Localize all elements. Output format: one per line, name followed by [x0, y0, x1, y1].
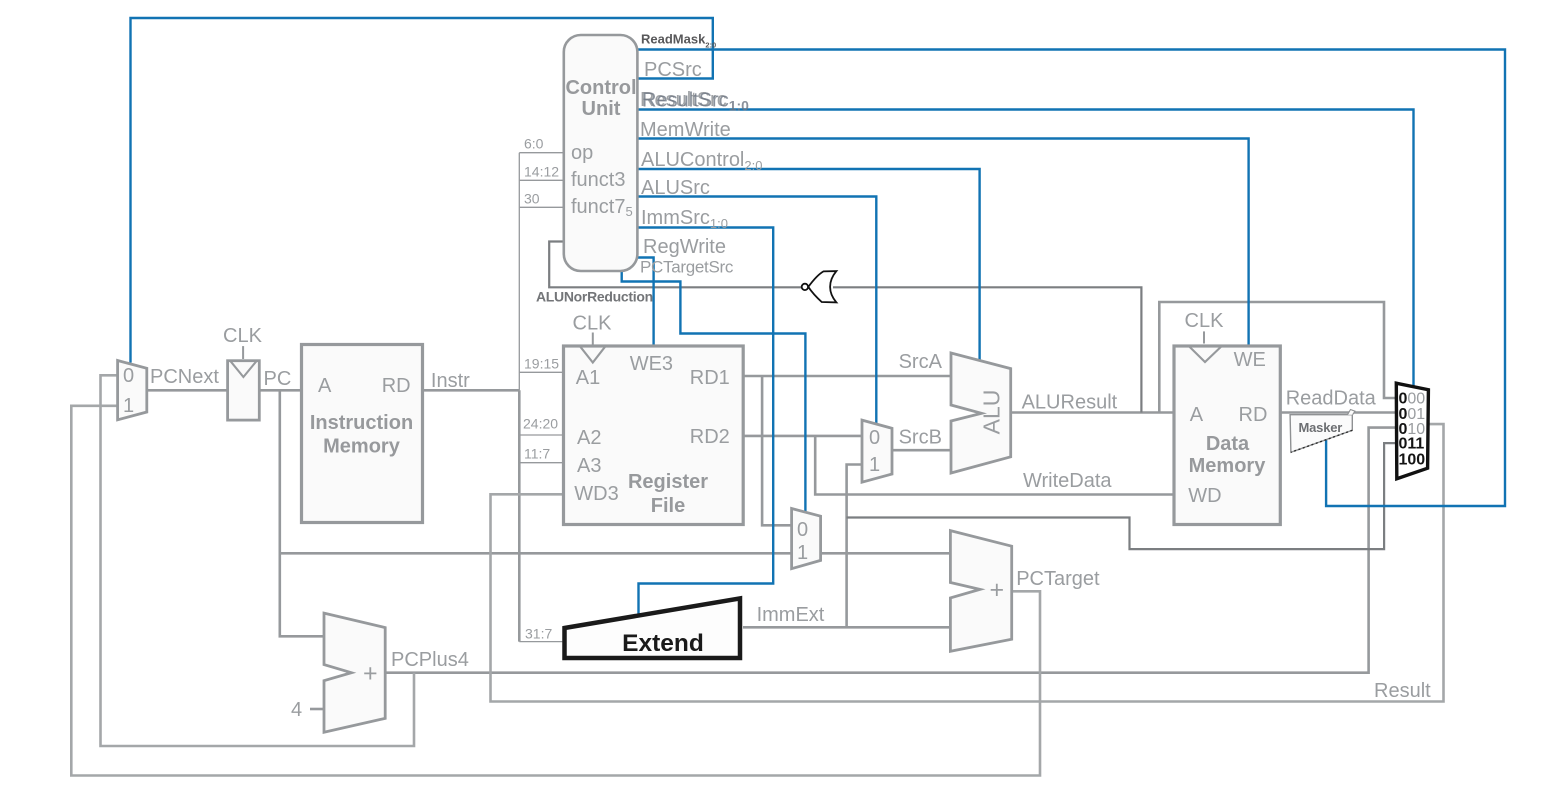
register file block: [564, 346, 744, 525]
wire RegWrite (blue) to Register File WE3: [637, 258, 653, 347]
svg-text:PCNext: PCNext: [150, 366, 219, 388]
svg-text:11:7: 11:7: [524, 446, 550, 462]
clock wedge on data memory: [1190, 347, 1222, 362]
wire ALUControl (blue) to ALU: [637, 169, 979, 361]
svg-text:WE: WE: [1234, 349, 1266, 371]
mux SrcB (ALUSrc mux): [862, 420, 892, 482]
svg-text:Instruction: Instruction: [310, 412, 413, 434]
wire tap 30 to Control Unit funct7: [519, 206, 564, 208]
wire ALUSrc (blue) to SrcB mux select: [637, 197, 876, 424]
svg-text:ImmExt: ImmExt: [757, 604, 825, 626]
svg-text:A: A: [1190, 404, 1204, 426]
result mux (black, hand drawn): [1396, 383, 1428, 479]
svg-text:011: 011: [1399, 436, 1425, 453]
wire PCPlus4: adder output across to result mux input 010: [385, 428, 1397, 673]
svg-text:CLK: CLK: [223, 325, 263, 347]
wire PCSrc (blue) from Control Unit over the top to PC mux select: [131, 18, 713, 363]
svg-text:6:0: 6:0: [524, 136, 544, 152]
adder PCPlus4: [324, 613, 385, 732]
svg-text:14:12: 14:12: [524, 164, 559, 180]
svg-text:A2: A2: [577, 427, 601, 449]
svg-text:PC: PC: [264, 368, 292, 390]
clock tick PC: [242, 346, 244, 359]
wire instruction tap bus thin vertical to Control Unit: [518, 153, 520, 391]
svg-text:WriteData: WriteData: [1023, 470, 1112, 492]
svg-text:Memory: Memory: [323, 436, 401, 458]
svg-text:30: 30: [524, 191, 540, 207]
svg-text:+: +: [363, 660, 378, 688]
svg-text:Unit: Unit: [582, 98, 621, 120]
wire tap 19:15 to Register File A1: [519, 371, 563, 373]
svg-text:funct3: funct3: [571, 169, 625, 191]
wire PCTargetSrc mux output to PCTarget adder top input: [821, 552, 951, 555]
svg-text:SrcB: SrcB: [899, 427, 942, 449]
wire ReadMask (blue) from Control Unit around right side to Masker select: [637, 50, 1505, 507]
svg-text:Result: Result: [1374, 680, 1431, 702]
wire PCTargetSrc (blue) from Control Unit bottom to PCTargetSrc mux select: [622, 271, 806, 512]
wire ALUNorReduction: from ALUResult up and left through NOR gate into Control Unit: [833, 287, 1141, 412]
wire tap 14:12 to Control Unit funct3: [519, 179, 564, 181]
wire Result: result mux output down and back to Register File WD3: [491, 424, 1444, 701]
wire PCTarget loop back to PC mux input 1: [71, 406, 1040, 776]
svg-text:SrcA: SrcA: [899, 351, 943, 373]
svg-text:ALUSrc: ALUSrc: [641, 177, 710, 199]
svg-text:ReadData: ReadData: [1286, 388, 1377, 410]
wire PCNext: mux output to PC register: [147, 389, 228, 392]
svg-text:A3: A3: [577, 455, 601, 477]
svg-text:Register: Register: [628, 471, 708, 493]
adder PCTarget: [950, 531, 1011, 652]
svg-text:31:7: 31:7: [525, 626, 552, 642]
svg-text:+: +: [990, 576, 1005, 604]
svg-text:ALUNorReduction: ALUNorReduction: [536, 289, 653, 305]
svg-text:PCTargetSrc: PCTargetSrc: [640, 258, 734, 277]
svg-text:PCPlus4: PCPlus4: [391, 649, 469, 671]
NOR gate (ALUNorReduction): [802, 271, 837, 302]
wire tap 11:7 to Register File A3: [519, 462, 563, 464]
clock tick register file: [592, 333, 594, 345]
svg-text:0: 0: [869, 427, 880, 449]
wire RD2 to SrcB mux input 0: [743, 435, 862, 438]
wire SrcB mux output to ALU: [892, 449, 951, 452]
ALU: [951, 353, 1011, 473]
svg-text:19:15: 19:15: [524, 356, 559, 372]
svg-text:RD2: RD2: [690, 426, 730, 448]
BLOCKS: [118, 35, 1281, 732]
svg-text:ALUResult: ALUResult: [1022, 392, 1118, 414]
instruction memory block: [302, 345, 423, 523]
clock wedge on register file: [580, 347, 605, 363]
svg-text:1: 1: [869, 454, 880, 476]
wire ImmExt branch to result mux input 011: [847, 443, 1398, 549]
control unit rounded block: [564, 35, 638, 271]
wire PCPlus4 loop back to PC mux input 0: [101, 375, 415, 746]
svg-text:Control: Control: [565, 77, 636, 99]
svg-text:24:20: 24:20: [523, 416, 558, 432]
svg-text:ALU: ALU: [979, 390, 1005, 435]
svg-text:MemWrite: MemWrite: [640, 119, 731, 141]
masker block (sketchy): [1290, 410, 1355, 453]
svg-text:A: A: [318, 375, 332, 397]
svg-text:1: 1: [123, 395, 134, 417]
svg-text:RD1: RD1: [690, 367, 730, 389]
svg-text:Memory: Memory: [1189, 455, 1267, 477]
svg-text:RD: RD: [1239, 404, 1268, 426]
clock wedge on PC register: [231, 361, 257, 377]
svg-text:A1: A1: [576, 367, 600, 389]
svg-text:Data: Data: [1206, 433, 1250, 455]
wire RD1 branch down to PCTargetSrc mux input 0: [762, 376, 792, 525]
wire Instr: Instruction Memory RD to instruction bus: [423, 389, 520, 392]
wire tap 24:20 to Register File A2: [519, 434, 563, 436]
svg-text:Extend: Extend: [622, 630, 704, 657]
wire RD1 to ALU SrcA: [743, 375, 951, 378]
wire ALUResult over-route to result mux input 000: [1159, 302, 1397, 413]
svg-text:RD: RD: [382, 375, 411, 397]
mux PCTargetSrc: [792, 509, 821, 569]
svg-text:CLK: CLK: [573, 313, 613, 335]
wire ReadData: Data Memory RD to result mux input 001: [1280, 411, 1397, 414]
extend block (black): [565, 598, 741, 658]
svg-text:PCSrc: PCSrc: [644, 59, 702, 81]
wire instruction bus vertical (thick): [518, 390, 521, 641]
svg-text:Masker: Masker: [1299, 420, 1343, 435]
svg-text:op: op: [571, 142, 593, 164]
wire WriteData: RD2 branch down to Data Memory WD: [815, 436, 1174, 495]
wire PC: PC register to Instruction Memory A: [259, 389, 301, 392]
svg-text:ResultSrc1:0: ResultSrc1:0: [642, 90, 749, 114]
svg-text:File: File: [651, 495, 685, 517]
data memory block: [1174, 346, 1280, 525]
svg-text:ALUControl2:0: ALUControl2:0: [641, 149, 762, 173]
svg-text:Instr: Instr: [431, 370, 470, 392]
wire constant 4 stub into PCPlus4 adder: [310, 708, 324, 711]
wire tap 31:7 to Extend: [519, 641, 562, 643]
wire ALUResult: ALU to Data Memory A: [1011, 411, 1174, 414]
svg-text:PCTarget: PCTarget: [1016, 568, 1100, 590]
wire ResultSrc (blue) to result mux select: [637, 110, 1413, 388]
svg-text:0: 0: [797, 519, 808, 541]
svg-text:RegWrite: RegWrite: [643, 236, 726, 258]
svg-text:WD3: WD3: [574, 483, 618, 505]
wire ImmExt riser to SrcB mux input 1: [847, 465, 862, 628]
svg-text:100: 100: [1399, 452, 1426, 469]
svg-text:ReadMask2:0: ReadMask2:0: [641, 32, 716, 50]
svg-text:ImmSrc1:0: ImmSrc1:0: [641, 207, 728, 231]
svg-text:WD: WD: [1188, 485, 1221, 507]
wire tap 6:0 to Control Unit op: [519, 152, 564, 154]
mux PCNext (PC source mux): [118, 361, 147, 420]
wire ImmExt: Extend output to PCTarget adder bottom input: [743, 626, 950, 629]
clock tick data memory: [1203, 331, 1205, 343]
PC register: [228, 361, 260, 420]
svg-text:WE3: WE3: [630, 353, 673, 375]
wire ImmSrc (blue) to Extend select: [637, 228, 773, 615]
wire MemWrite (blue) to Data Memory WE: [637, 139, 1248, 347]
svg-text:1: 1: [797, 542, 808, 564]
wire PC feed down to PCPlus4 adder: [280, 390, 324, 636]
svg-text:4: 4: [291, 699, 302, 721]
svg-text:0: 0: [123, 365, 134, 387]
svg-text:funct75: funct75: [571, 196, 633, 219]
wire PC branch right to PCTargetSrc mux input 1: [280, 552, 792, 555]
svg-text:CLK: CLK: [1185, 310, 1225, 332]
